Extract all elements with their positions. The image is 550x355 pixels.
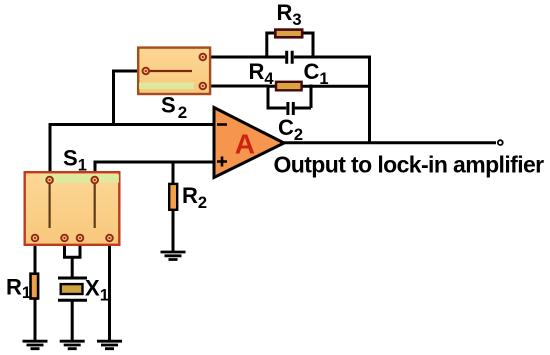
svg-text:C1: C1 <box>304 59 329 88</box>
svg-text:R2: R2 <box>182 183 207 212</box>
svg-text:R4: R4 <box>249 59 275 88</box>
svg-text:X1: X1 <box>85 276 109 305</box>
svg-text:A: A <box>235 128 255 159</box>
svg-text:S2: S2 <box>161 93 189 123</box>
svg-text:S1: S1 <box>63 146 87 175</box>
svg-text:Output to lock-in amplifier: Output to lock-in amplifier <box>274 151 545 177</box>
svg-text:C2: C2 <box>278 115 303 144</box>
svg-text:R1: R1 <box>6 275 31 303</box>
svg-text:R3: R3 <box>277 0 302 29</box>
